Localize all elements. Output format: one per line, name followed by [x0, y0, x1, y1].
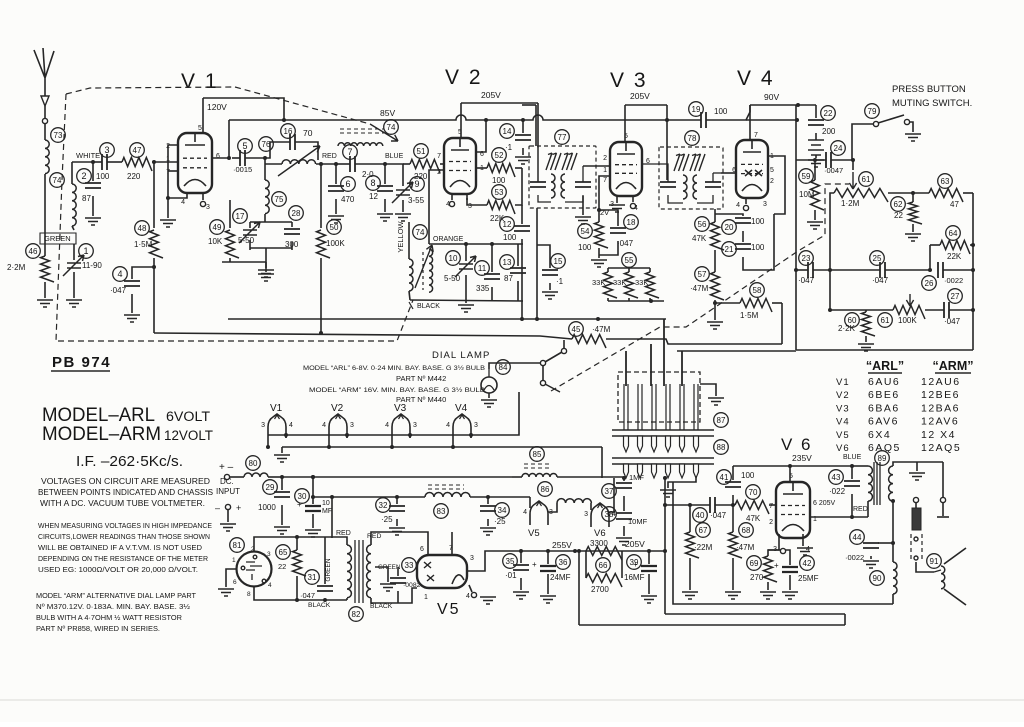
wire 120V link [203, 98, 286, 122]
svg-text:8: 8 [370, 178, 375, 188]
svg-text:89: 89 [878, 454, 887, 463]
svg-text:Nº M370.12V. 0·183A. MIN. BAY.: Nº M370.12V. 0·183A. MIN. BAY. BASE. 3½ [36, 602, 190, 611]
svg-text:MODEL “ARL” 6-8V. 0·24 MIN. BA: MODEL “ARL” 6-8V. 0·24 MIN. BAY. BASE. G… [303, 364, 485, 372]
capacitor 19 100 [667, 102, 799, 180]
svg-text:49: 49 [213, 223, 222, 232]
resistor 49 10K [208, 200, 274, 277]
svg-text:3: 3 [206, 204, 210, 211]
heater V6b [584, 478, 616, 539]
svg-text:83: 83 [437, 507, 446, 516]
wire 85V bus [229, 115, 701, 122]
pin 5 V1 [198, 98, 203, 133]
wire [601, 447, 603, 478]
svg-text:52: 52 [495, 151, 504, 160]
svg-text:40: 40 [696, 511, 705, 520]
pin labels V6 [769, 473, 835, 553]
svg-text:6: 6 [345, 179, 350, 189]
svg-text:22: 22 [824, 109, 833, 118]
svg-text:79: 79 [868, 107, 877, 116]
svg-text:·25: ·25 [381, 515, 393, 524]
lamp switch [489, 340, 567, 392]
capacitor 31 .047 [300, 537, 333, 600]
resistor 70 47K [735, 485, 776, 523]
svg-text:·1: ·1 [556, 277, 564, 286]
svg-text:·047: ·047 [110, 286, 127, 295]
svg-text:66: 66 [599, 561, 608, 570]
note dial lamp 1 [36, 591, 196, 600]
svg-text:100: 100 [751, 243, 765, 252]
wire feed 1 [625, 351, 627, 386]
svg-text:32: 32 [379, 501, 388, 510]
ground pin3 V3 [609, 196, 625, 212]
svg-text:V 3: V 3 [610, 69, 648, 92]
resistor 62 22 [891, 191, 922, 241]
svg-text:30: 30 [298, 492, 307, 501]
svg-text:12BA6: 12BA6 [921, 402, 960, 414]
label V6 [781, 435, 813, 454]
svg-text:·0022: ·0022 [944, 276, 963, 285]
ground heater [274, 447, 290, 462]
heater V2 [322, 403, 354, 449]
svg-text:MUTING SWITCH.: MUTING SWITCH. [892, 98, 972, 109]
terminal DC minus [215, 503, 241, 531]
capacitor 30 10MF [295, 475, 332, 537]
capacitor 32 .25 [376, 495, 405, 535]
wire tank top [429, 242, 523, 246]
resistor 46 2.2M [7, 244, 54, 282]
svg-text:61: 61 [881, 316, 890, 325]
ground vibrator top [700, 384, 724, 405]
capacitor 6 470 [328, 162, 355, 223]
terminal DC plus [224, 474, 229, 479]
svg-text:53: 53 [495, 188, 504, 197]
wire pot left [830, 193, 834, 310]
svg-text:39: 39 [630, 558, 639, 567]
svg-text:12AQ5: 12AQ5 [921, 442, 961, 454]
table header ARL [866, 359, 904, 373]
svg-text:7: 7 [347, 147, 352, 157]
svg-text:2: 2 [603, 155, 607, 162]
transformer 82 secondary [367, 533, 401, 610]
table row V3 [836, 402, 960, 414]
svg-text:100K: 100K [898, 316, 917, 325]
label BLUE [385, 153, 404, 160]
svg-text:78: 78 [688, 134, 697, 143]
vibrator box [618, 372, 728, 427]
ground V5 [480, 597, 496, 604]
svg-text:V5: V5 [836, 430, 850, 441]
wire [250, 248, 292, 281]
svg-text:1·5M: 1·5M [134, 240, 153, 249]
svg-text:11: 11 [478, 264, 487, 273]
wire heater bus A [268, 392, 519, 435]
svg-text:RED: RED [322, 153, 337, 160]
svg-text:2: 2 [769, 519, 773, 526]
capacitor T78 primary [642, 164, 683, 203]
svg-text:100: 100 [741, 471, 755, 480]
wire IF feed [537, 103, 539, 148]
svg-text:41: 41 [720, 473, 729, 482]
svg-text:CIRCUITS,LOWER READINGS THAN T: CIRCUITS,LOWER READINGS THAN THOSE SHOWN [38, 532, 210, 541]
tuning dashes osc [413, 225, 428, 290]
svg-text:V5: V5 [528, 528, 540, 539]
capacitor 42 25MF [768, 550, 819, 599]
svg-text:87: 87 [82, 194, 91, 203]
wire osc grid [429, 170, 444, 244]
svg-text:RED: RED [853, 506, 868, 513]
svg-text:WHEN MEASURING VOLTAGES IN HIG: WHEN MEASURING VOLTAGES IN HIGH IMPEDANC… [38, 521, 212, 530]
ground pin4 V6 [797, 534, 813, 555]
speaker 91 [927, 548, 966, 605]
svg-text:BLACK: BLACK [370, 603, 393, 610]
svg-text:DEPENDING ON THE RESISTANCE OF: DEPENDING ON THE RESISTANCE OF THE METER [38, 554, 208, 563]
wire chassis bus [154, 333, 572, 339]
svg-text:4: 4 [466, 593, 470, 600]
svg-text:V 6: V 6 [781, 435, 813, 454]
svg-text:BULB WITH A 4·7OHM ½ WATT RESI: BULB WITH A 4·7OHM ½ WATT RESISTOR [36, 613, 182, 622]
svg-text:V 4: V 4 [737, 67, 775, 90]
svg-text:1: 1 [424, 594, 428, 601]
svg-text:17: 17 [236, 212, 245, 221]
label GREEN [40, 233, 76, 244]
svg-text:4: 4 [736, 202, 740, 209]
svg-text:4: 4 [446, 422, 450, 429]
svg-text:·022: ·022 [829, 487, 846, 496]
diode plates V4 [745, 170, 762, 176]
svg-text:84: 84 [499, 363, 508, 372]
output transformer 89 primary [852, 466, 872, 517]
resistor 64 22K [930, 226, 975, 270]
svg-text:47K: 47K [746, 514, 761, 523]
tube V6 6AQ5 [776, 482, 810, 538]
capacitor 38 10MF [602, 507, 648, 545]
resistor 60 2.2K [828, 308, 875, 351]
coil T77 secondary [561, 174, 565, 198]
svg-text:·01: ·01 [505, 571, 517, 580]
heater V4 [446, 403, 478, 449]
vibrator socket bar [612, 440, 728, 478]
wire battery bus [282, 475, 512, 479]
pin 4 terminal V2 [449, 194, 454, 207]
coil interstage [338, 129, 384, 146]
svg-text:GREEN: GREEN [325, 558, 332, 581]
wire IF1 to V3 [583, 165, 610, 167]
wire RED drop [330, 495, 351, 538]
svg-text:GREEN: GREEN [44, 234, 71, 243]
svg-text:37: 37 [605, 487, 614, 496]
capacitor 3 100 [93, 143, 122, 181]
svg-text:90V: 90V [764, 92, 779, 102]
capacitor 43 .022 [829, 464, 860, 517]
note dial lamp 4 [36, 624, 160, 633]
svg-text:3: 3 [104, 145, 109, 155]
capacitor T78 secondary [697, 173, 721, 203]
svg-text:V6: V6 [594, 528, 606, 539]
svg-text:4: 4 [322, 422, 326, 429]
svg-text:26: 26 [925, 279, 934, 288]
node antenna [42, 118, 47, 123]
pin 7 wire V5 [451, 532, 453, 555]
svg-text:+: + [236, 503, 241, 513]
trimmer 9 3-55 [385, 164, 425, 221]
svg-text:12: 12 [503, 220, 512, 229]
svg-text:6X4: 6X4 [868, 429, 891, 441]
table row V1 [836, 376, 961, 388]
svg-text:15: 15 [554, 257, 563, 266]
svg-text:88: 88 [717, 443, 726, 452]
vibrator pins [624, 384, 698, 430]
svg-text:·47M: ·47M [690, 284, 709, 293]
svg-text:+: + [532, 560, 537, 569]
antenna [34, 48, 54, 118]
resistor 52 100 [476, 148, 522, 185]
svg-text:RED: RED [336, 530, 351, 537]
ground vibrator socket [660, 476, 696, 497]
capacitor 25 .047 [830, 251, 932, 285]
pin terminal V5 [469, 585, 477, 598]
capacitor 20 100 [715, 214, 765, 242]
svg-text:·22M: ·22M [694, 543, 713, 552]
svg-text:1: 1 [232, 557, 236, 564]
label 205V [625, 539, 645, 549]
svg-text:BLACK: BLACK [417, 303, 440, 310]
svg-text:·25: ·25 [494, 517, 506, 526]
svg-text:12AV6: 12AV6 [921, 416, 959, 428]
capacitor 14 .1 [500, 120, 531, 164]
muting switch 79 [852, 104, 921, 160]
svg-text:5-50: 5-50 [444, 274, 461, 283]
pin 3 terminal V6 [780, 548, 785, 553]
coil osc secondary [429, 249, 433, 292]
svg-text:RED: RED [367, 533, 381, 540]
capacitor 7 2.0 [336, 145, 385, 179]
label 120V [207, 102, 227, 112]
label RED [322, 153, 337, 160]
svg-text:29: 29 [266, 483, 275, 492]
note impedance 2 [38, 532, 210, 541]
svg-text:21: 21 [725, 245, 734, 254]
svg-text:24MF: 24MF [550, 573, 571, 582]
svg-text:70: 70 [303, 128, 313, 138]
trimmer 1 11-90 [63, 244, 102, 307]
svg-text:7: 7 [437, 153, 441, 160]
svg-text:“ARL”: “ARL” [866, 359, 904, 373]
svg-text:13: 13 [503, 258, 512, 267]
svg-text:61: 61 [862, 175, 871, 184]
svg-text:MF: MF [322, 508, 332, 515]
wire cathode V2 [466, 194, 468, 200]
svg-text:ORANGE: ORANGE [433, 236, 464, 243]
fuse 80 [230, 456, 282, 477]
svg-text:255V: 255V [552, 540, 572, 550]
svg-text:74: 74 [53, 176, 62, 185]
svg-text:100: 100 [714, 107, 728, 116]
svg-text:1·5M: 1·5M [740, 311, 759, 320]
svg-text:47K: 47K [692, 234, 707, 243]
wire 205V bus V2 [461, 90, 538, 103]
wire [152, 258, 156, 333]
svg-text:36: 36 [559, 558, 568, 567]
note lamp ARM [309, 386, 486, 394]
svg-text:47: 47 [950, 200, 959, 209]
svg-text:3: 3 [763, 201, 767, 208]
svg-text:42: 42 [803, 559, 812, 568]
svg-text:47: 47 [133, 146, 142, 155]
resistor 56 47K [692, 209, 724, 272]
svg-text:6AU6: 6AU6 [868, 376, 900, 388]
wire rail left [795, 105, 797, 350]
capacitor 22 200 [796, 103, 836, 167]
wire feed 2 [650, 344, 652, 386]
capacitor 23 .047 [794, 251, 832, 285]
svg-text:4: 4 [385, 422, 389, 429]
svg-text:200: 200 [822, 127, 836, 136]
speaker plug contacts [913, 462, 949, 517]
svg-text:6: 6 [216, 153, 220, 160]
capacitor 29 1000 [258, 475, 290, 534]
wire B line [313, 496, 425, 498]
wire [606, 339, 782, 344]
note lamp ARL [303, 364, 485, 372]
svg-text:PART Nº M442: PART Nº M442 [396, 374, 446, 383]
dashed chassis line [58, 300, 413, 341]
IF transformer T78 box [659, 131, 723, 209]
svg-text:PART Nº PR858, WIRED IN SERIES: PART Nº PR858, WIRED IN SERIES. [36, 624, 160, 633]
svg-text:7: 7 [769, 503, 773, 510]
tuning arrow 75 [278, 146, 320, 176]
dial lamp 84 [481, 360, 510, 407]
svg-text:6AV6: 6AV6 [868, 416, 899, 428]
wire bottom bus C [579, 614, 845, 625]
note impedance 4 [38, 554, 208, 563]
svg-text:·047: ·047 [944, 317, 961, 326]
note voltages 1 [41, 477, 210, 486]
resistor 68 .47M [725, 505, 755, 599]
svg-text:6 205V: 6 205V [813, 500, 836, 507]
svg-text:VOLTAGES ON CIRCUIT ARE MEASUR: VOLTAGES ON CIRCUIT ARE MEASURED [41, 477, 210, 486]
svg-text:19: 19 [692, 105, 701, 114]
svg-text:33: 33 [405, 561, 414, 570]
wire bottom bus A [673, 482, 893, 604]
transformer 82 primary [308, 537, 363, 621]
wire IF1 return [535, 208, 539, 321]
heater V5b [523, 497, 553, 539]
svg-text:220: 220 [414, 172, 428, 181]
svg-text:80: 80 [249, 459, 258, 468]
svg-text:16MF: 16MF [624, 573, 645, 582]
svg-text:205V: 205V [481, 90, 501, 100]
svg-text:V1: V1 [836, 377, 850, 388]
svg-text:·047: ·047 [710, 511, 727, 520]
dashed shield left [56, 94, 66, 341]
svg-text:48: 48 [138, 224, 147, 233]
svg-text:11-90: 11-90 [82, 261, 102, 270]
svg-text:67: 67 [699, 526, 708, 535]
svg-text:7: 7 [754, 132, 758, 139]
resistor 69 270 [747, 534, 779, 599]
svg-text:·47M: ·47M [736, 543, 755, 552]
label dial lamp [432, 350, 490, 361]
svg-text:·47M: ·47M [592, 325, 611, 334]
coil 76 coupling [265, 160, 336, 164]
svg-text:10: 10 [322, 500, 330, 507]
svg-text:V2: V2 [331, 403, 344, 414]
tube V5 6X4 [417, 545, 474, 618]
svg-text:14: 14 [503, 127, 512, 136]
resistor 66 3300/2700 [586, 539, 622, 594]
dashed shield top [66, 87, 235, 94]
svg-text:91: 91 [930, 557, 939, 566]
svg-text:3: 3 [474, 422, 478, 429]
svg-text:22K: 22K [947, 252, 962, 261]
capacitor 33 .0082 [390, 558, 421, 603]
capacitor 18 .047 [597, 208, 638, 255]
svg-text:51: 51 [417, 147, 426, 156]
svg-text:55: 55 [625, 256, 634, 265]
svg-text:58: 58 [753, 286, 762, 295]
svg-text:WILL BE OBTAINED IF A V.T.VM.: WILL BE OBTAINED IF A V.T.VM. IS NOT USE… [38, 543, 202, 552]
pin labels V3 [603, 133, 650, 212]
svg-text:50: 50 [330, 223, 339, 232]
pin 3 terminal V1 [200, 193, 205, 207]
resistor 47 220 [122, 143, 152, 181]
vibrator plug bar [612, 430, 714, 452]
wire V6 plate top [788, 464, 792, 482]
svg-text:46: 46 [29, 247, 38, 256]
svg-text:WITH A DC. VACUUM TUBE VOLTME: WITH A DC. VACUUM TUBE VOLTMETER. [40, 499, 205, 508]
svg-text:·0022: ·0022 [845, 553, 864, 562]
slug symbols T77 [546, 153, 577, 170]
svg-text:V6: V6 [836, 443, 850, 454]
coil L74 secondary [50, 162, 77, 230]
pin 4 terminal V4 [743, 198, 748, 211]
note impedance 1 [38, 521, 212, 530]
note impedance 3 [38, 543, 202, 552]
wire [37, 282, 53, 307]
svg-text:12VOLT: 12VOLT [164, 428, 213, 443]
svg-text:12 X4: 12 X4 [921, 429, 956, 441]
dashed tuning link [235, 87, 398, 141]
wire bottom 2 [577, 549, 581, 625]
svg-text:22: 22 [894, 211, 903, 220]
note voltages 2 [38, 488, 213, 497]
coil T78 secondary [693, 175, 697, 199]
wire bottom bus B [665, 613, 845, 615]
svg-text:82: 82 [352, 610, 361, 619]
svg-text:PRESS BUTTON: PRESS BUTTON [892, 84, 966, 95]
svg-text:3: 3 [470, 555, 474, 562]
svg-text:16: 16 [284, 127, 293, 136]
svg-text:12: 12 [369, 192, 378, 201]
table row V2 [836, 389, 960, 401]
resistor 67 .22M [682, 503, 713, 599]
wire IF1 supply [522, 105, 536, 146]
svg-text:8: 8 [247, 591, 251, 598]
capacitor 41 100 [717, 466, 755, 505]
capacitor 40 .047 [663, 497, 735, 522]
resistor 54 100 [578, 176, 610, 267]
svg-text:1000: 1000 [258, 503, 276, 512]
heater V3 [385, 403, 417, 449]
wire cathode side V1 [160, 145, 187, 227]
capacitor 11 335 [475, 244, 500, 301]
table row V5 [836, 429, 956, 441]
svg-text:6: 6 [233, 579, 237, 586]
wire bottom 1 [663, 476, 667, 614]
svg-text:100: 100 [503, 233, 517, 242]
coil T77 primary [551, 174, 555, 198]
table row V4 [836, 416, 959, 428]
